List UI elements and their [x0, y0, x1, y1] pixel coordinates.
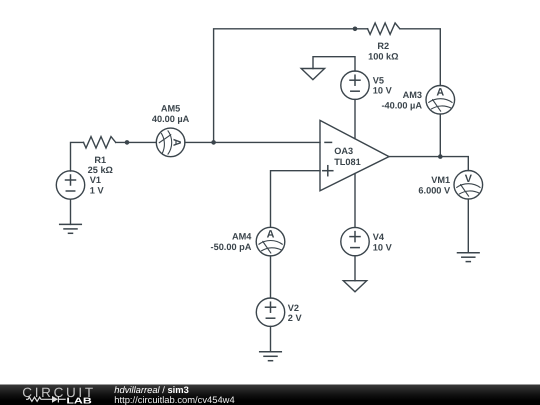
svg-text:AM5: AM5	[161, 104, 180, 114]
svg-text:A: A	[170, 138, 182, 146]
svg-text:AM4: AM4	[232, 232, 252, 242]
svg-text:V5: V5	[373, 76, 384, 86]
svg-text:-50.00 pA: -50.00 pA	[211, 242, 252, 252]
svg-text:V2: V2	[288, 303, 299, 313]
svg-text:6.000 V: 6.000 V	[418, 185, 451, 195]
svg-text:R1: R1	[94, 155, 106, 165]
svg-text:25 kΩ: 25 kΩ	[88, 165, 113, 175]
svg-text:100 kΩ: 100 kΩ	[368, 52, 398, 62]
svg-text:2 V: 2 V	[288, 313, 303, 323]
svg-text:1 V: 1 V	[90, 185, 105, 195]
svg-text:-40.00 µA: -40.00 µA	[381, 100, 422, 110]
svg-text:LAB: LAB	[66, 396, 91, 405]
svg-text:10 V: 10 V	[373, 242, 393, 252]
svg-text:VM1: VM1	[431, 175, 450, 185]
svg-text:A: A	[436, 87, 444, 99]
svg-text:40.00 µA: 40.00 µA	[152, 114, 190, 124]
svg-text:R2: R2	[377, 41, 389, 51]
svg-text:V: V	[465, 173, 473, 185]
svg-text:AM3: AM3	[403, 90, 422, 100]
svg-text:http://circuitlab.com/cv454w4: http://circuitlab.com/cv454w4	[114, 394, 234, 405]
svg-text:V4: V4	[373, 232, 385, 242]
svg-text:A: A	[267, 229, 275, 241]
svg-text:V1: V1	[90, 175, 101, 185]
svg-text:TL081: TL081	[334, 157, 361, 167]
svg-text:OA3: OA3	[334, 146, 353, 156]
svg-text:10 V: 10 V	[373, 86, 393, 96]
